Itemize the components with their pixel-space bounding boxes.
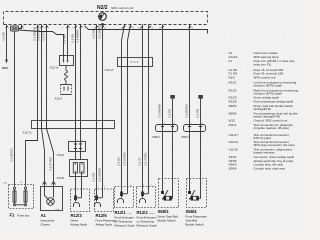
instrument cluster A1 xyxy=(41,182,63,211)
svg-text:0.5 BR: 0.5 BR xyxy=(168,109,172,117)
control unit N2/2 dashed boundary box xyxy=(4,12,208,25)
fuse 34 xyxy=(24,187,26,189)
svg-text:R12/1: R12/1 xyxy=(115,210,127,215)
S68/4 feed wire xyxy=(189,25,191,125)
contact strip X58/4 xyxy=(184,125,206,132)
svg-text:S68/4: S68/4 xyxy=(186,209,198,214)
svg-text:Airbag Squib: Airbag Squib xyxy=(71,223,88,227)
svg-text:X11/17: X11/17 xyxy=(105,68,114,72)
svg-text:15R: 15R xyxy=(3,183,7,185)
passenger airbag wire pair xyxy=(96,25,98,189)
svg-text:Cluster: Cluster xyxy=(41,223,50,227)
svg-text:SRS control unit: SRS control unit xyxy=(111,6,133,10)
svg-text:S68/4: S68/4 xyxy=(229,111,237,115)
F1 label xyxy=(10,213,30,218)
svg-text:Airbag Squib: Airbag Squib xyxy=(96,223,113,227)
svg-text:S68/3: S68/3 xyxy=(229,104,237,108)
S68/3 label xyxy=(158,209,178,223)
svg-text:X58/4: X58/4 xyxy=(181,135,189,139)
wires X58/4 to S68/4 xyxy=(190,132,201,181)
svg-text:Retractor Squib: Retractor Squib xyxy=(115,224,135,228)
svg-text:0.5 GN: 0.5 GN xyxy=(92,30,96,39)
wire to A1 pin right xyxy=(47,25,54,187)
SRS coupler bar X11/12 xyxy=(32,121,115,129)
svg-text:X11/12: X11/12 xyxy=(23,130,32,134)
diagnosis connector X11/4 xyxy=(61,85,72,95)
twisted lead to X11/4 xyxy=(65,71,68,81)
R12/2 label xyxy=(137,210,157,228)
svg-text:0.5 BU: 0.5 BU xyxy=(117,157,121,165)
crash sensor symbol inside N2/2 xyxy=(98,13,107,26)
svg-text:R12/2: R12/2 xyxy=(137,210,149,215)
svg-text:0.5 WH: 0.5 WH xyxy=(62,34,66,43)
driver airbag squib R12/3 xyxy=(71,189,90,212)
R12/1 label xyxy=(115,210,135,228)
svg-text:X58/4: X58/4 xyxy=(229,166,237,170)
joined bottoms xyxy=(16,204,25,206)
svg-text:Fuse box: Fuse box xyxy=(18,213,30,217)
pin numbers at connectors xyxy=(77,123,204,191)
svg-text:Buckle Switch: Buckle Switch xyxy=(158,219,176,223)
R12/3 label xyxy=(71,213,88,227)
ETR right wire pair through X11/17 xyxy=(142,25,144,187)
pin stub into connector xyxy=(19,25,22,29)
internal bus wire under N2/2 to right side xyxy=(85,26,208,34)
svg-text:R12/1: R12/1 xyxy=(229,80,237,84)
A1 label xyxy=(41,213,55,227)
svg-text:0.5 BR: 0.5 BR xyxy=(2,32,6,40)
svg-text:S68/3: S68/3 xyxy=(158,209,170,214)
pin wire to X11/16 xyxy=(67,25,69,56)
fuse 16 xyxy=(13,187,15,189)
svg-text:X11/16: X11/16 xyxy=(50,66,59,70)
svg-text:X11/4: X11/4 xyxy=(55,97,63,101)
wire pin to F1 fuse 34 via X11/12 xyxy=(26,25,38,187)
svg-text:0.5 GY/BU: 0.5 GY/BU xyxy=(37,27,41,40)
svg-text:Right: Right xyxy=(150,212,155,215)
test connector X11/16 xyxy=(60,56,74,66)
belt buckle switch S68/3 xyxy=(159,179,179,208)
R12/6 label xyxy=(96,213,117,227)
svg-text:Contact strip, right seat: Contact strip, right seat xyxy=(254,166,285,170)
belt buckle switch S68/4 xyxy=(187,179,207,208)
wire to A1 pin left xyxy=(42,25,45,187)
control unit N2/2 title xyxy=(97,5,133,11)
svg-text:X58/3: X58/3 xyxy=(152,135,160,139)
ETR left wire pair through X11/17 xyxy=(122,25,125,187)
ground wire to W15 xyxy=(5,25,8,64)
svg-text:relay box F1): relay box F1) xyxy=(254,63,272,67)
svg-text:R12/3: R12/3 xyxy=(71,213,83,218)
ETR squib R12/2 xyxy=(137,187,156,208)
junction xyxy=(162,29,164,31)
svg-text:N2/2: N2/2 xyxy=(229,76,236,80)
svg-text:0.5 GY: 0.5 GY xyxy=(42,32,46,41)
svg-text:X11/16: X11/16 xyxy=(229,147,239,151)
S68/4 label xyxy=(186,209,207,227)
svg-text:X11/17: X11/17 xyxy=(229,133,239,137)
wire to F1 fuse 16 xyxy=(14,31,16,187)
svg-text:N2/2: N2/2 xyxy=(97,5,108,11)
svg-text:R12/6: R12/6 xyxy=(96,213,108,218)
svg-text:retractor (ETR) squib: retractor (ETR) squib xyxy=(254,84,283,88)
pin numbers on N2/2 xyxy=(8,28,194,30)
svg-text:X33/5: X33/5 xyxy=(57,176,65,180)
fuse box F1 xyxy=(9,185,34,209)
svg-text:0.5 RD/YE: 0.5 RD/YE xyxy=(10,148,14,161)
svg-text:R12/2: R12/2 xyxy=(229,88,237,92)
wire from connector to diagnostic branch xyxy=(19,30,64,56)
junction xyxy=(189,29,191,31)
svg-text:F1: F1 xyxy=(229,59,233,63)
svg-text:X33/4: X33/4 xyxy=(57,153,65,157)
svg-text:0.5 VT: 0.5 VT xyxy=(138,157,142,165)
slip ring X33/5 xyxy=(70,152,88,177)
svg-text:F1: F1 xyxy=(10,213,16,218)
wires X58/3 to S68/3 xyxy=(163,132,173,181)
svg-text:0.5 GN/RD: 0.5 GN/RD xyxy=(98,168,102,181)
svg-text:0.5 GN: 0.5 GN xyxy=(92,173,96,182)
svg-text:(impulse readout, 38-pole): (impulse readout, 38-pole) xyxy=(254,126,290,130)
svg-text:X11/4: X11/4 xyxy=(229,123,237,127)
passenger airbag squib R12/6 xyxy=(95,189,114,212)
pin slashes on N2/2 xyxy=(6,26,192,28)
svg-text:W15: W15 xyxy=(2,66,8,70)
svg-text:0.5 BN/RD: 0.5 BN/RD xyxy=(76,29,80,42)
svg-text:Retractor Squib: Retractor Squib xyxy=(137,224,157,228)
legend column xyxy=(229,51,299,170)
S68/4 ground-side wire with tag xyxy=(198,95,203,125)
svg-text:0.5 BR: 0.5 BR xyxy=(196,109,200,117)
wires X33/5 to R12/3 xyxy=(76,177,82,191)
svg-text:0.5 BK/GN: 0.5 BK/GN xyxy=(185,104,189,117)
contact strip X58/3 xyxy=(156,125,178,132)
svg-text:X11/12: X11/12 xyxy=(229,140,239,144)
test connector X11/17 xyxy=(118,58,153,67)
svg-text:Buckle Switch: Buckle Switch xyxy=(186,223,204,227)
svg-text:0.5 BK/WH: 0.5 BK/WH xyxy=(158,104,162,118)
connector (2-pole) under pin, top left xyxy=(11,26,19,31)
ETR squib R12/1 xyxy=(115,187,134,208)
airbag connector X33/4 xyxy=(69,142,86,152)
SRS warning lamp A1e16 xyxy=(47,198,55,206)
S68/3 feed wire xyxy=(162,25,164,125)
svg-text:0.5 VT/RD: 0.5 VT/RD xyxy=(144,153,148,166)
svg-text:Left: Left xyxy=(128,212,132,215)
svg-text:0.5 BU/RD: 0.5 BU/RD xyxy=(123,152,127,165)
svg-text:0.5 GN/RD: 0.5 GN/RD xyxy=(98,25,102,38)
S68/3 ground-side wire with tag xyxy=(170,95,175,125)
driver airbag wire pair to X33/4 xyxy=(75,25,77,142)
svg-text:SRS control unit: SRS control unit xyxy=(254,76,276,80)
svg-text:0.5 GY/RD: 0.5 GY/RD xyxy=(49,157,53,170)
svg-text:A1: A1 xyxy=(41,213,47,218)
svg-text:0.5 BN: 0.5 BN xyxy=(71,34,75,42)
